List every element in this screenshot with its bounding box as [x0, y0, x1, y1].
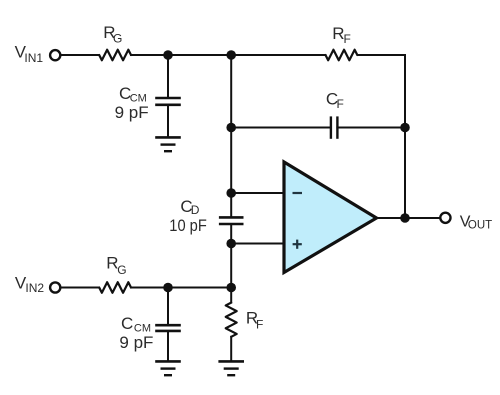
svg-text:9 pF: 9 pF [115, 103, 149, 122]
svg-text:C: C [121, 314, 133, 333]
svg-text:IN1: IN1 [24, 51, 43, 65]
svg-text:F: F [337, 97, 344, 111]
svg-text:9 pF: 9 pF [119, 333, 153, 352]
svg-text:OUT: OUT [468, 220, 492, 232]
svg-text:10 pF: 10 pF [169, 216, 207, 235]
svg-text:CM: CM [134, 322, 151, 334]
svg-text:F: F [344, 32, 351, 46]
svg-text:G: G [113, 32, 122, 46]
svg-text:G: G [117, 263, 126, 277]
svg-text:F: F [256, 318, 263, 332]
svg-text:CM: CM [130, 93, 147, 105]
svg-text:D: D [191, 203, 200, 217]
svg-text:IN2: IN2 [25, 281, 44, 295]
